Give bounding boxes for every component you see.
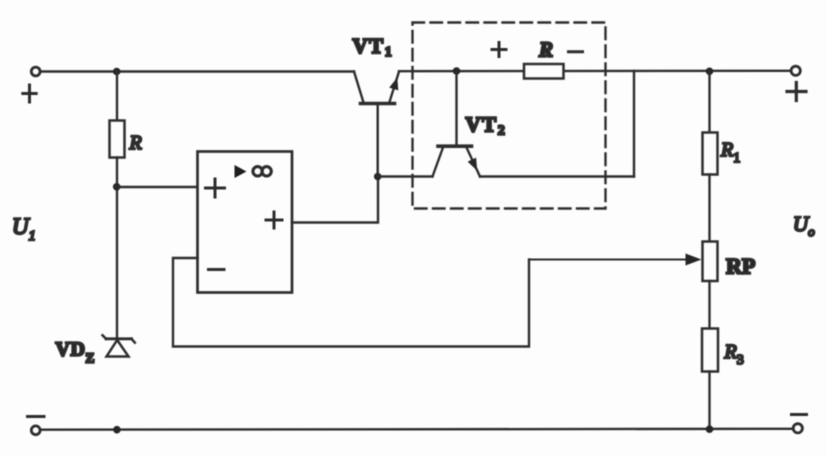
wire top rail left segment xyxy=(41,70,355,72)
terminal minus (bottom-right) xyxy=(793,424,802,433)
node VT1 base junction xyxy=(374,173,382,181)
polarity - (bottom-left) xyxy=(28,415,45,418)
svg-text:VT2: VT2 xyxy=(466,113,505,139)
polarity + (sense R left) xyxy=(492,43,506,57)
svg-text:R: R xyxy=(538,38,553,62)
svg-text:R1: R1 xyxy=(720,139,740,166)
zener diode VDZ xyxy=(103,335,135,356)
op-amp infinity symbol xyxy=(253,167,271,176)
resistor R1 xyxy=(703,133,718,175)
polarity + (top-left) xyxy=(23,85,36,102)
transistor VT2 xyxy=(433,146,481,176)
potentiometer RP body xyxy=(703,242,718,282)
wire right rail seg4 xyxy=(708,372,710,430)
wire VT2 base lead xyxy=(455,71,457,145)
op-amp - input mark xyxy=(209,268,225,271)
svg-text:VT1: VT1 xyxy=(353,34,392,60)
wire left rail mid xyxy=(116,158,118,339)
protection block dashed box xyxy=(413,23,606,209)
terminal input + (top-left) xyxy=(31,67,40,76)
resistor R3 xyxy=(702,329,718,372)
resistor R (left bias) xyxy=(110,121,125,158)
polarity - (bottom-right) xyxy=(792,413,807,416)
node opamp input junction xyxy=(113,183,121,191)
wire op-amp output xyxy=(292,177,378,223)
node VT2 base junction on rail xyxy=(453,67,461,75)
wire VT2 collector to VT1 base xyxy=(378,175,433,177)
wire left rail upper xyxy=(116,72,118,122)
potentiometer RP wiper arrow xyxy=(529,254,702,266)
wire top rail right segment xyxy=(399,70,791,73)
wire VT2 emitter to output side xyxy=(480,175,634,177)
svg-text:R3: R3 xyxy=(724,341,744,368)
svg-text:Uo: Uo xyxy=(793,212,815,239)
wire right rail seg1 xyxy=(708,71,710,133)
svg-text:R: R xyxy=(129,132,142,154)
node bottom-left junction xyxy=(113,426,121,434)
wire emitter riser to rail xyxy=(633,71,635,177)
wire bottom rail xyxy=(41,428,793,431)
polarity + (top-right) xyxy=(787,83,806,101)
node output rail junction xyxy=(706,68,714,76)
op-amp gain triangle xyxy=(235,165,247,178)
transistor VT1 xyxy=(354,72,399,104)
op-amp U1 box xyxy=(198,152,293,293)
svg-text:U1: U1 xyxy=(12,214,36,244)
terminal output + (top-right) xyxy=(791,66,800,75)
op-amp + input mark xyxy=(206,179,225,197)
wire right rail seg3 xyxy=(708,281,710,329)
wire feedback from inverting input xyxy=(173,258,529,347)
terminal minus (bottom-left) xyxy=(31,426,40,435)
op-amp + output mark xyxy=(266,212,282,228)
wire VT1 base lead xyxy=(377,104,379,177)
resistor R (current sense) xyxy=(524,64,564,79)
wire right rail seg2 xyxy=(708,175,710,242)
svg-text:RP: RP xyxy=(726,254,755,279)
polarity - (sense R right) xyxy=(569,50,583,53)
node bottom-right junction xyxy=(706,425,714,433)
node input rail junction xyxy=(113,68,121,76)
wire to op-amp noninverting input xyxy=(117,186,198,188)
svg-text:VDZ: VDZ xyxy=(56,339,95,366)
